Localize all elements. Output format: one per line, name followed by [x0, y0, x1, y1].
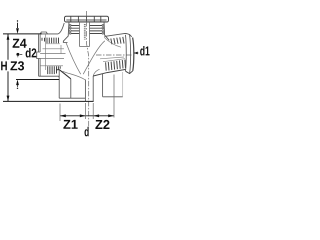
label Z2: [95, 120, 109, 129]
dim: d2 dot: [16, 53, 19, 56]
body pear curve right: [83, 41, 105, 74]
label d: [85, 127, 89, 137]
right socket rim outer arc: [133, 38, 134, 71]
right skirt left edge: [102, 74, 104, 97]
main centerline: [87, 11, 89, 127]
body inner vertical: [70, 79, 72, 98]
right branch lower rib strokes: [106, 60, 126, 71]
label d2: [26, 48, 37, 58]
dim: H arrow down: [7, 96, 10, 102]
front branch band boundary: [46, 43, 60, 45]
front branch mid lines: [37, 49, 66, 66]
right branch cone top: [104, 33, 131, 37]
top socket right edge: [104, 22, 109, 40]
label H: [1, 61, 7, 70]
dim: Z2 right arrow: [108, 114, 114, 117]
top socket left ribs: [71, 26, 80, 34]
body bottom shelf: [59, 97, 85, 99]
right branch lower silhouette: [93, 69, 126, 76]
dim: bottom dimension line: [60, 115, 114, 117]
top socket rim knurl dashes: [66, 17, 106, 22]
right socket rim inner arc: [125, 35, 128, 71]
dim: top extension line: [3, 33, 42, 35]
front branch mouth rim protrusion: [37, 52, 40, 59]
right branch cone lower-left silhouette: [104, 37, 121, 47]
front branch top bump: [40, 32, 47, 34]
right branch upper rib strokes: [111, 37, 124, 44]
right skirt bottom: [103, 96, 123, 98]
dim: d left arrow: [80, 114, 86, 117]
top socket bottom flare line: [63, 42, 67, 44]
dim: d1 leader arrow: [134, 52, 138, 54]
top socket left edge: [63, 22, 69, 43]
front branch top line and curve to top socket: [42, 23, 64, 34]
top socket center stripe: [80, 22, 90, 47]
outlet pipe left wall: [84, 80, 86, 102]
dim: Z3 arrow up with tail: [17, 85, 19, 87]
right skirt right edge: [122, 72, 124, 97]
right socket rim mid arc: [130, 34, 131, 73]
front branch left edge outer: [38, 35, 40, 77]
front branch upper knurl band: [42, 38, 59, 44]
body pear curve left: [66, 43, 81, 75]
outlet pipe right wall: [92, 76, 94, 101]
dim: Z3 extension line: [16, 79, 59, 81]
body left edge: [58, 71, 60, 99]
label d1: [140, 46, 149, 56]
dim: d right arrow: [93, 114, 99, 117]
dim: bottom baseline: [3, 100, 94, 102]
text labels as paths: [1, 39, 149, 137]
right branch centerline: [96, 54, 133, 56]
top socket rim band outline: [65, 16, 109, 22]
front branch inner mouth line: [44, 35, 46, 71]
top socket stripe text column: [84, 24, 86, 40]
front branch inner right line: [60, 45, 62, 53]
front branch bottom line: [39, 76, 60, 77]
dim: Z1 left arrow: [60, 114, 66, 117]
top socket right ribs: [90, 26, 103, 34]
dim: H arrow up: [7, 34, 10, 40]
right socket rim bottom corner: [126, 71, 133, 74]
label Z1: [63, 120, 77, 129]
dim: Z4 arrow down with tail: [17, 20, 18, 21]
label Z3: [10, 61, 24, 70]
dim: H line upper: [7, 34, 9, 60]
dim: H line lower: [7, 71, 9, 101]
body valley arc right: [93, 69, 99, 76]
body chamfer line: [56, 70, 71, 79]
dim: bottom extension lines: [60, 75, 114, 122]
right branch lower band top boundary: [103, 59, 125, 62]
front branch left edge inner: [39, 34, 41, 76]
front branch lower knurl band: [48, 66, 61, 74]
body valley arc left: [63, 71, 86, 80]
right branch inner line: [100, 57, 124, 59]
label Z4: [13, 39, 27, 48]
